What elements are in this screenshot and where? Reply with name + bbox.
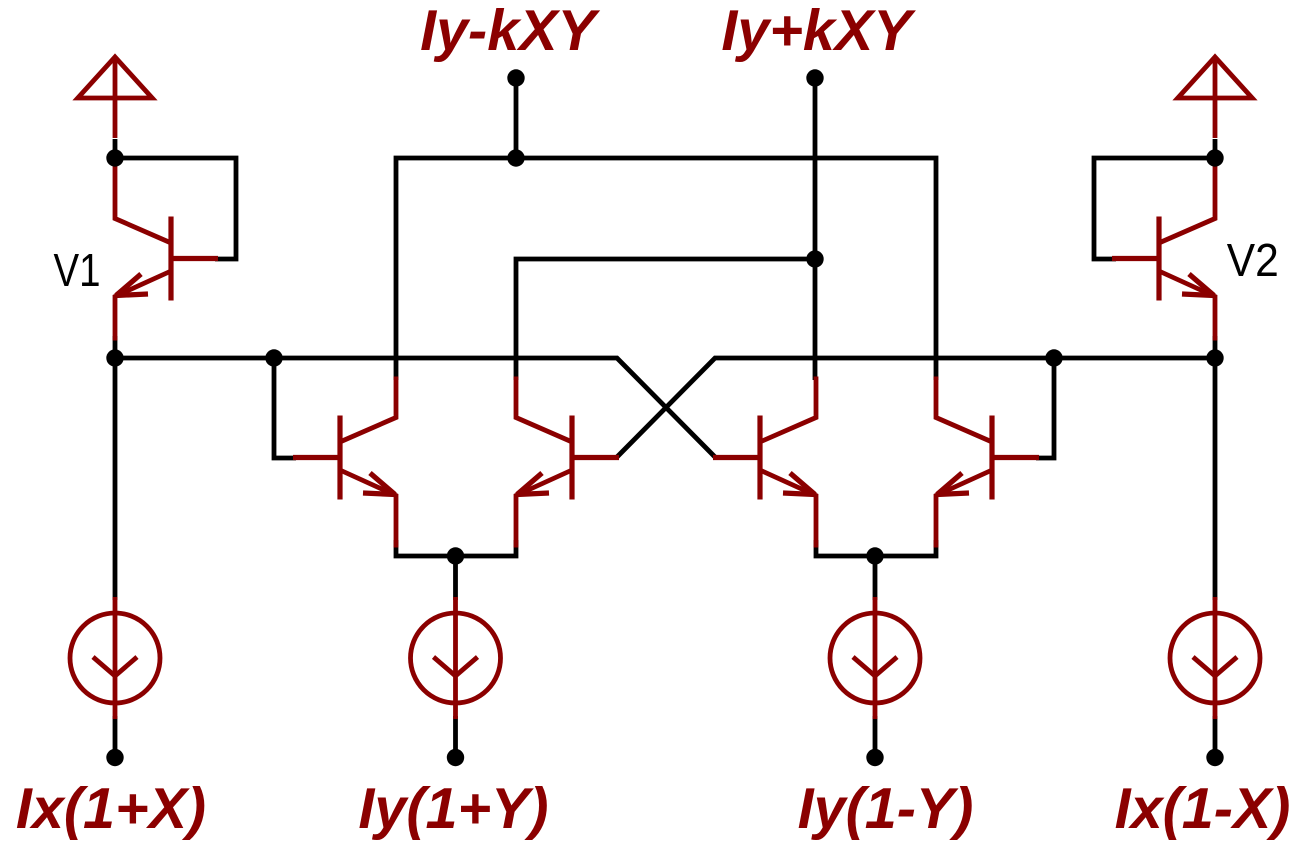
node: right power junction [1206, 149, 1223, 166]
node: second bus junction [806, 250, 823, 267]
current source I1 [70, 597, 160, 719]
wire: CS4 to terminal [1213, 716, 1218, 757]
wire: V1 collector-base loop [115, 158, 236, 259]
node: left emitter junction [447, 547, 464, 564]
node: right emitter junction [866, 547, 883, 564]
node: rail right end [1206, 349, 1223, 366]
wire: V2 emitter to rail [1213, 336, 1218, 358]
transistor Q1 (left pair left) [293, 377, 396, 548]
wire: CS2 to terminal [453, 716, 458, 757]
node: top bus junction [507, 149, 524, 166]
wire: node1 to current source [453, 556, 458, 600]
current source I3 [830, 597, 920, 719]
wire: left rail + cross diagonal to Q3 base [115, 358, 715, 457]
node: terminal Iy(1-Y) [866, 749, 883, 766]
transistor Q2 (left pair right) [516, 377, 619, 548]
svg-text:Iy-kXY: Iy-kXY [420, 0, 600, 63]
wire: CS1 to terminal [113, 716, 118, 757]
wire: second bus (Iy+kXY) with Q2 collector riser [516, 259, 815, 380]
node: terminal Ix(1-X) [1206, 749, 1223, 766]
svg-text:V2: V2 [1227, 234, 1279, 286]
current source I4 [1170, 597, 1260, 719]
power symbol left (up arrow) [78, 57, 152, 138]
wire: Q1 base branch [274, 358, 296, 458]
node: Q4 base tap [1045, 349, 1062, 366]
wire: V2 collector-base loop [1094, 158, 1215, 259]
wire: right power stem to node [1213, 139, 1218, 158]
current source I2 [411, 597, 501, 719]
svg-text:Ix(1-X): Ix(1-X) [1115, 777, 1291, 841]
wire: right rail + cross diagonal to Q2 base [617, 358, 1215, 457]
wire: top bus (Iy-kXY) with Q1/Q4 collector risers [396, 158, 936, 380]
svg-text:Iy(1+Y): Iy(1+Y) [358, 777, 548, 841]
wire: V1 emitter to rail [113, 336, 118, 358]
node: terminal Iy-kXY [507, 69, 524, 86]
node: terminal Iy+kXY [806, 69, 823, 86]
wire: left pair emitter tie [396, 540, 516, 556]
transistor V2 [1112, 162, 1215, 341]
wire: right pair emitter tie [816, 540, 936, 556]
wire: terminal Iy-kXY drop [514, 78, 519, 158]
transistor Q3 (right pair left) [713, 377, 816, 548]
node: Q1 base tap [265, 349, 282, 366]
transistor V1 [115, 162, 218, 341]
svg-text:Iy+kXY: Iy+kXY [721, 0, 916, 63]
node: terminal Iy(1+Y) [447, 749, 464, 766]
wire: Q4 base branch [1036, 358, 1054, 458]
power symbol right (up arrow) [1178, 57, 1252, 138]
wire: node2 to current source [873, 556, 878, 600]
node: left power junction [106, 149, 123, 166]
wire: terminal Iy+kXY drop / Q3 collector riser [813, 78, 818, 380]
wire: left power stem to node [113, 139, 118, 158]
wire: CS3 to terminal [873, 716, 878, 757]
svg-text:Ix(1+X): Ix(1+X) [16, 777, 206, 841]
svg-text:V1: V1 [54, 244, 101, 296]
transistor Q4 (right pair right) [936, 377, 1039, 548]
wire: right column to current source [1213, 358, 1218, 600]
svg-text:Iy(1-Y): Iy(1-Y) [798, 777, 974, 841]
node: terminal Ix(1+X) [106, 749, 123, 766]
node: rail left end [106, 349, 123, 366]
wire: left column to current source [113, 358, 118, 600]
